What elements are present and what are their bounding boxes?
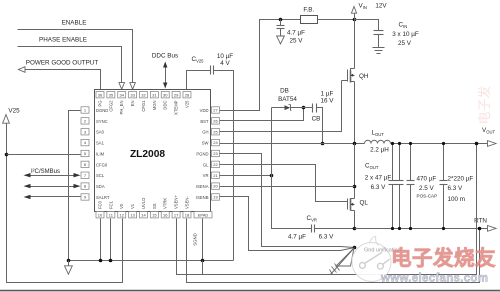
svg-text:V25: V25 [184, 100, 189, 108]
svg-text:19: 19 [213, 195, 218, 200]
svg-text:SCL: SCL [96, 173, 105, 178]
wire SGND to star ground [203, 248, 355, 275]
svg-text:24: 24 [213, 140, 218, 145]
pin 34 PH_EN [118, 92, 126, 98]
arrow power good output [18, 67, 25, 73]
svg-text:1 µF: 1 µF [321, 90, 334, 97]
svg-text:MGN: MGN [152, 101, 157, 111]
svg-text:12: 12 [120, 212, 125, 217]
svg-text:V25: V25 [8, 108, 20, 115]
wire VR up to diode DB anode [271, 108, 273, 176]
svg-text:10 µF: 10 µF [217, 53, 233, 60]
svg-text:34: 34 [120, 92, 125, 97]
svg-text:SS: SS [152, 203, 157, 209]
svg-text:35: 35 [109, 92, 114, 97]
wire FC0 to rail [100, 219, 102, 261]
node DGND [67, 259, 71, 263]
svg-text:2 x 47 µF: 2 x 47 µF [365, 175, 392, 182]
capacitor CB [304, 107, 313, 109]
pin 5 ILIM [81, 150, 89, 156]
svg-text:CFG0: CFG0 [96, 162, 108, 167]
svg-text:VR: VR [203, 173, 209, 178]
inductor LOUT [365, 140, 391, 143]
node VSEN- tap [478, 227, 482, 231]
node SGND [201, 259, 205, 263]
svg-text:SYNC: SYNC [96, 119, 108, 124]
svg-text:ISENA: ISENA [196, 184, 209, 189]
node SW at CB [321, 142, 325, 146]
svg-text:FC0: FC0 [98, 200, 103, 209]
svg-text:EN: EN [130, 101, 135, 107]
wire CB to SW rail [317, 108, 323, 144]
svg-text:SALRT: SALRT [96, 195, 110, 200]
svg-text:DB: DB [280, 87, 289, 94]
pin 27 VDD [212, 107, 220, 113]
wire SGND rail [69, 260, 234, 262]
svg-text:FC1: FC1 [108, 200, 113, 209]
diode DB BAT54 [272, 107, 285, 109]
svg-text:www.elecfans.com: www.elecfans.com [380, 273, 488, 285]
wire V25 net [7, 124, 123, 283]
pin 8 SDA [81, 183, 89, 189]
svg-text:10: 10 [98, 212, 103, 217]
pin 7 SCL [81, 172, 89, 178]
wire VDD pin up to F.B. [220, 20, 301, 111]
wire BST pin to DB/CB node [220, 108, 304, 121]
node FC1 [109, 259, 113, 263]
svg-text:VSEN-: VSEN- [184, 196, 189, 209]
svg-text:DDC Bus: DDC Bus [152, 53, 178, 60]
arrow into pin PH_EN [119, 83, 125, 90]
wire V25 pin to CV25 [187, 71, 211, 90]
svg-text:PH_EN: PH_EN [119, 100, 124, 114]
node VDD bypass junction [279, 18, 283, 22]
svg-text:470 µF: 470 µF [417, 176, 437, 183]
svg-text:F.B.: F.B. [303, 6, 314, 13]
capacitor CV25 [210, 66, 212, 75]
wire VIN to QH drain [354, 20, 356, 69]
pin 3 SA0 [81, 129, 89, 135]
node star ground [353, 246, 357, 250]
pin 21 VR [212, 172, 220, 178]
svg-text:CFG1: CFG1 [141, 100, 146, 112]
terminal RTN arrow [488, 226, 497, 232]
svg-text:6.3 V: 6.3 V [319, 233, 335, 240]
svg-text:V0: V0 [119, 203, 124, 209]
wire GH pin to QH gate [220, 81, 342, 132]
capacitor COUT a (2x47uF) [392, 144, 394, 181]
wire F.B. to VIN node [318, 19, 355, 21]
svg-text:QL: QL [360, 200, 369, 207]
svg-text:CFG2: CFG2 [108, 100, 113, 112]
svg-text:100 m: 100 m [448, 196, 466, 203]
svg-text:VSEN+: VSEN+ [174, 195, 179, 209]
capacitor COUT b (2x47uF) [399, 144, 401, 181]
wire CV25 to SGND rail [214, 71, 234, 261]
svg-text:25: 25 [213, 129, 218, 134]
svg-text:28: 28 [185, 92, 190, 97]
pin 23 PGND [212, 150, 220, 156]
svg-text:V1: V1 [130, 203, 135, 209]
wire GL pin to QL gate [220, 165, 319, 202]
wire VIN to CIN [355, 20, 379, 31]
wire VSEN+ to VOUT [177, 144, 477, 275]
svg-text:BAT54: BAT54 [278, 96, 297, 103]
svg-text:30: 30 [163, 92, 168, 97]
svg-text:15: 15 [152, 212, 157, 217]
svg-text:25 V: 25 V [398, 40, 412, 47]
pin 6 CFG0 [81, 161, 89, 167]
svg-text:DDC: DDC [163, 101, 168, 110]
wire PGND pin to star ground [220, 154, 355, 248]
pin EPAD [194, 212, 212, 218]
wire VOUT rail [391, 143, 488, 145]
svg-text:4 V: 4 V [220, 60, 230, 67]
DDC Bus double arrow [165, 67, 167, 85]
node ISENA tap [353, 185, 357, 189]
node PGND at QL source [353, 227, 357, 231]
wire QL source to RTN rail [354, 211, 356, 229]
wire EPAD SGND to rail [202, 219, 204, 261]
pin 24 SW [212, 139, 220, 145]
wire ENABLE net [18, 30, 133, 83]
pin 16 VTRK [161, 212, 169, 218]
pin 20 ISENA [212, 183, 220, 189]
pin 35 CFG2 [107, 92, 115, 98]
svg-text:2.5 V: 2.5 V [419, 185, 435, 192]
svg-text:GH: GH [202, 130, 208, 135]
svg-text:17: 17 [174, 212, 179, 217]
svg-text:I²C/SMBus: I²C/SMBus [31, 169, 60, 175]
svg-text:EPAD: EPAD [198, 213, 209, 218]
svg-text:6.3 V: 6.3 V [371, 184, 387, 191]
pin 17 VSEN+ [172, 212, 180, 218]
capacitor CVR [311, 225, 313, 233]
wire SW pin to inductor [220, 143, 365, 145]
transistor QH [351, 69, 355, 71]
svg-text:SA1: SA1 [96, 141, 105, 146]
wire SDA arrow [29, 186, 75, 188]
wire VSEN- to RTN [187, 219, 480, 283]
wire RTN rail [355, 228, 488, 230]
svg-text:12V: 12V [375, 3, 387, 10]
pin 19 ISENB [212, 194, 220, 200]
svg-text:UVLO: UVLO [141, 197, 146, 209]
wire VR down to CVR [272, 176, 312, 229]
svg-text:PHASE ENABLE: PHASE ENABLE [39, 37, 87, 44]
svg-text:31: 31 [152, 92, 157, 97]
pin 14 UVLO [139, 212, 147, 218]
pin 18 VSEN- [183, 212, 191, 218]
pin 26 BST [212, 118, 220, 124]
pin 15 SS [150, 212, 158, 218]
pin 11 FC1 [107, 212, 115, 218]
svg-text:SGND: SGND [193, 233, 198, 245]
pin 29 XTEMP [172, 92, 180, 98]
svg-text:26: 26 [213, 118, 218, 123]
svg-text:3 x 10 µF: 3 x 10 µF [392, 31, 419, 38]
svg-text:20: 20 [213, 184, 218, 189]
pin 9 SALRT [81, 194, 89, 200]
node FC0 [99, 259, 103, 263]
capacitor CIN [374, 30, 384, 32]
svg-text:ISENB: ISENB [196, 195, 209, 200]
pin 25 GH [212, 129, 220, 135]
svg-text:SA0: SA0 [96, 130, 105, 135]
svg-text:ENABLE: ENABLE [62, 19, 87, 26]
node VSEN+ tap [475, 142, 479, 146]
wire PHASE ENABLE net [18, 47, 122, 83]
ferrite bead F.B. [301, 16, 318, 24]
bottom border line [0, 290, 500, 292]
svg-text:PG: PG [98, 101, 103, 107]
svg-text:XTEMP: XTEMP [174, 100, 179, 115]
svg-text:CB: CB [312, 116, 321, 123]
ground arrow DGND [65, 266, 73, 274]
svg-text:ILIM: ILIM [96, 151, 105, 156]
svg-text:SW: SW [202, 141, 209, 146]
svg-text:25 V: 25 V [290, 38, 304, 45]
svg-text:电子发烧友: 电子发烧友 [391, 246, 496, 270]
svg-text:16 V: 16 V [321, 98, 335, 105]
ground arrow 4.7uF [277, 36, 285, 44]
svg-text:6.3 V: 6.3 V [448, 185, 464, 192]
wire ISENB pin to star ground [220, 197, 355, 251]
pin 12 V0 [118, 212, 126, 218]
svg-text:18: 18 [185, 212, 190, 217]
svg-text:BST: BST [200, 119, 209, 124]
node SW at QH/QL [353, 142, 357, 146]
wire FC1 to rail [110, 219, 112, 261]
svg-text:SDA: SDA [96, 184, 105, 189]
pin 22 GL [212, 161, 220, 167]
pin 1 DGND [81, 107, 89, 113]
wire SCL arrow [29, 175, 75, 177]
svg-text:22: 22 [213, 162, 218, 167]
pin 4 SA1 [81, 139, 89, 145]
capacitor 2*220uF [443, 144, 445, 181]
wire QH source to SW rail [354, 82, 356, 144]
wire ISENA pin to SW node [220, 186, 355, 188]
svg-text:2.2 µH: 2.2 µH [370, 147, 389, 154]
svg-text:14: 14 [141, 212, 146, 217]
svg-text:2*220 µF: 2*220 µF [448, 176, 474, 183]
terminal VOUT arrow [488, 141, 497, 147]
svg-text:VDD: VDD [200, 108, 209, 113]
svg-text:DGND: DGND [96, 108, 108, 113]
svg-text:PGND: PGND [196, 151, 208, 156]
svg-text:23: 23 [213, 151, 218, 156]
svg-text:GL: GL [203, 162, 209, 167]
node VIN [353, 18, 357, 22]
svg-text:13: 13 [130, 212, 135, 217]
pin 36 PG [96, 92, 104, 98]
svg-text:16: 16 [163, 212, 168, 217]
wire CVR to RTN rail [315, 228, 355, 230]
svg-text:VTRK: VTRK [163, 198, 168, 209]
watermark circle logo [352, 243, 391, 282]
svg-text:21: 21 [213, 173, 218, 178]
wire V25 to ILIM pin [7, 154, 81, 156]
pin 13 V1 [129, 212, 137, 218]
pin 28 V25 [183, 92, 191, 98]
wire POWER GOOD OUTPUT net [25, 70, 101, 90]
op-amp U1 ZL2008 body [95, 90, 211, 212]
pin 31 MGN [150, 92, 158, 98]
transistor QL [351, 199, 355, 201]
svg-text:QH: QH [359, 73, 369, 80]
svg-text:电子发: 电子发 [477, 85, 492, 124]
svg-text:29: 29 [174, 92, 179, 97]
svg-text:4.7 µF: 4.7 µF [287, 29, 305, 36]
pin 32 CFG1 [139, 92, 147, 98]
svg-text:32: 32 [141, 92, 146, 97]
node V25 branch [5, 153, 9, 157]
node VR [270, 174, 274, 178]
svg-text:POWER GOOD OUTPUT: POWER GOOD OUTPUT [26, 60, 99, 67]
svg-text:33: 33 [130, 92, 135, 97]
wire VR pin [220, 175, 272, 177]
capacitor 470uF POS-CAP [410, 144, 412, 181]
pin 10 FC0 [96, 212, 104, 218]
svg-text:POS-CAP: POS-CAP [417, 193, 438, 198]
terminal VIN arrow [354, 14, 356, 20]
pin 33 EN [129, 92, 137, 98]
wire SALRT arrow [29, 196, 75, 198]
ground earth symbol CIN [373, 47, 385, 49]
wire SW to QL drain [354, 144, 356, 199]
svg-text:4.7 µF: 4.7 µF [288, 233, 306, 240]
node BST [302, 106, 306, 110]
ground symbol star point [336, 248, 354, 266]
pin 30 DDC [161, 92, 169, 98]
svg-text:ZL2008: ZL2008 [130, 149, 165, 160]
wire DGND pin to rail [69, 111, 81, 261]
arrow into pin EN [130, 83, 136, 90]
svg-text:36: 36 [98, 92, 103, 97]
svg-text:27: 27 [213, 108, 218, 113]
pin 2 SYNC [81, 118, 89, 124]
